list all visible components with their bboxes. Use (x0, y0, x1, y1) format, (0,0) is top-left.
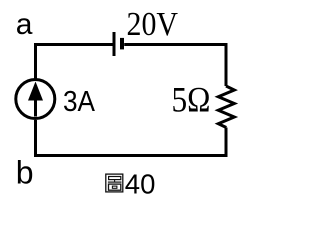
svg-text:20V: 20V (127, 6, 179, 43)
current source I1 arrow head (28, 82, 43, 101)
battery V1 short plate (right, negative) (120, 38, 124, 50)
current source I1 circle (16, 80, 55, 119)
svg-text:40: 40 (125, 168, 156, 199)
caption: character tu (figure) drawn as vector (106, 174, 123, 192)
svg-text:5Ω: 5Ω (172, 80, 211, 120)
current source I1 arrow tail (34, 99, 37, 117)
svg-text:b: b (16, 154, 34, 190)
svg-text:3A: 3A (63, 86, 96, 118)
svg-text:a: a (16, 8, 33, 41)
wire from battery to top-right corner down to resistor R1 (124, 45, 226, 87)
wire from resistor to bottom-right corner, bottom rail, up to current source bottom (36, 120, 227, 156)
battery V1 long plate (left, positive) (113, 32, 116, 56)
wire from node a corner to battery left plate (top-left) (36, 45, 113, 80)
resistor R1 zigzag (218, 86, 234, 128)
